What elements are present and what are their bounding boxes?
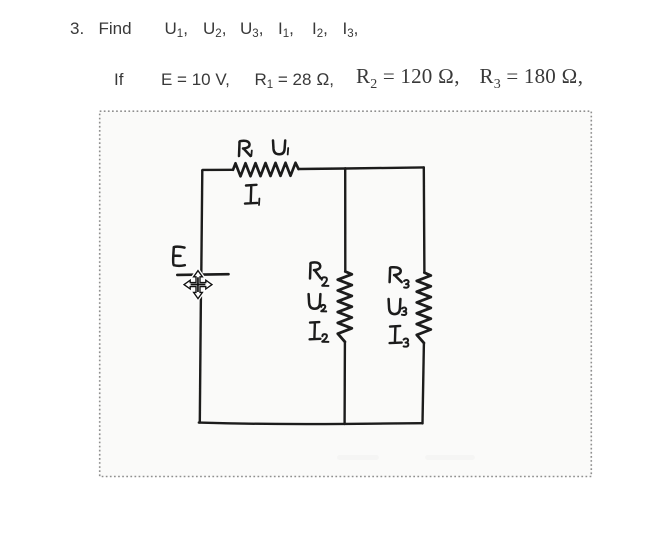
wire: left vertical, battery down to bottom-left corner — [200, 296, 201, 423]
wire: top, left segment from battery branch corner to R1 — [202, 169, 233, 172]
dotted selection border of image — [100, 111, 592, 476]
label I1 — [245, 185, 259, 205]
move cursor icon over battery — [184, 271, 212, 299]
label R1 — [239, 141, 252, 156]
resistor R1 (horizontal zigzag) — [233, 163, 299, 177]
label E (battery) — [173, 247, 185, 266]
resistor R3 (vertical zigzag) — [417, 273, 431, 343]
resistor R2 (vertical zigzag) — [338, 272, 352, 342]
label U1 — [273, 141, 288, 155]
wire: right branch lower segment — [423, 343, 424, 424]
wire: middle branch upper segment — [344, 169, 346, 272]
problem text line 1 — [70, 20, 84, 37]
node A: top junction of middle branch — [344, 167, 346, 170]
wire: bottom, left corner to node B — [199, 423, 345, 424]
wire: top, from node A to top-right corner — [345, 167, 424, 168]
label R2 — [310, 262, 328, 285]
wire: middle branch lower segment — [343, 342, 346, 424]
wire: left vertical, top corner down to battery — [201, 171, 202, 274]
wire: bottom, node B to bottom-right corner — [345, 422, 423, 425]
problem text line 2 — [114, 71, 123, 88]
node B: bottom junction of middle branch — [343, 422, 345, 425]
wire: right branch upper segment — [423, 167, 426, 272]
label U2 — [309, 294, 327, 311]
label I2 — [310, 322, 329, 342]
battery E plate — [177, 273, 228, 276]
faint scan ghost marks — [337, 455, 475, 460]
wire: top, from R1 to node A (middle branch tap) — [299, 167, 346, 170]
label R3 — [390, 267, 409, 288]
dotted selection box around scanned circuit image — [99, 111, 592, 477]
label U3 — [389, 299, 407, 315]
label I3 — [390, 326, 409, 347]
